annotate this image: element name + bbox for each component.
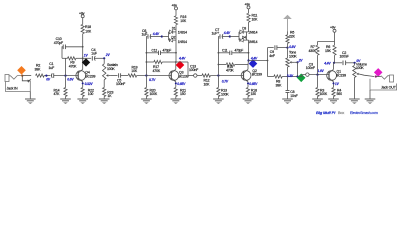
wire tone out to C3: [298, 75, 306, 77]
svg-text:10K: 10K: [131, 69, 138, 73]
wire C3 to Q1 base: [309, 74, 329, 76]
wire diode pair right vertical: [175, 32, 177, 40]
label Jack OUT: [381, 85, 397, 89]
potentiometer Tone 100K: [286, 48, 298, 77]
svg-text:C11: C11: [222, 48, 228, 52]
svg-text:4nF: 4nF: [269, 54, 275, 58]
svg-text:470pF: 470pF: [54, 41, 63, 45]
capacitor C5 100nF: [116, 73, 125, 86]
node tone top 0.8V: [286, 45, 296, 49]
node 4.4V (C7/D3 junction): [223, 31, 231, 37]
node Q1 base 1.6V: [316, 69, 324, 76]
jack switch contact to ground: [22, 76, 31, 83]
wire diodes down to C11 node: [248, 40, 250, 53]
wire R19 to Q3 base node: [137, 75, 172, 77]
svg-text:1uF: 1uF: [212, 32, 218, 36]
svg-text:560: 560: [337, 92, 343, 96]
label Q1: [336, 69, 346, 77]
ground (C8): [282, 99, 293, 104]
node Q3 base 0.7V: [145, 74, 156, 82]
wire Q2 collector to tone stack: [249, 60, 269, 62]
node volume top 0V: [354, 59, 362, 64]
node tone out 3.3V: [287, 74, 299, 78]
label 1V emitter Q1: [333, 82, 340, 86]
resistor R2 39K: [35, 63, 45, 77]
node Q2 collector 4.4V: [247, 56, 258, 61]
potentiometer Sustain 100K: [103, 58, 118, 87]
label 0.65V emitter Q2: [247, 82, 258, 86]
svg-text:4.4V: 4.4V: [323, 61, 331, 65]
svg-text:Big Muff Pi: Big Muff Pi: [316, 110, 336, 115]
jack enclosure / box outline: [6, 81, 31, 92]
wire jack tip to R2: [22, 75, 31, 77]
node Q4 collector: [82, 57, 84, 59]
input jack IN (plug symbol): [5, 75, 22, 82]
ground (output box): [365, 99, 376, 104]
svg-text:0.7V: 0.7V: [149, 78, 156, 82]
svg-text:100K: 100K: [320, 92, 328, 96]
test point TP4 (black diamond): [82, 58, 90, 66]
+9v supply terminal (Q3): [172, 4, 178, 10]
wire Q3 collector to C13: [176, 62, 194, 76]
svg-text:470K: 470K: [153, 69, 161, 73]
wire +9v to R18: [82, 18, 84, 25]
wire +9v to R16: [175, 10, 177, 16]
svg-text:C12: C12: [152, 48, 158, 52]
node sustain top 2V: [103, 53, 110, 59]
svg-text:1V: 1V: [84, 53, 89, 57]
node output: [375, 75, 377, 77]
node Q2 base 0.7V: [217, 74, 229, 83]
ground (R13): [213, 99, 224, 104]
node C10 top: [82, 46, 84, 48]
label 0.32V emitter Q4: [82, 82, 94, 86]
wire R11 down to diodes: [247, 22, 249, 40]
wire Q3 base vertical: [145, 37, 147, 76]
svg-text:Jack IN: Jack IN: [7, 86, 18, 90]
svg-text:0.65V: 0.65V: [177, 82, 186, 86]
label Q2: [252, 69, 262, 77]
capacitor C7 1uF (series, polarized): [212, 28, 230, 39]
svg-text:0.7V: 0.7V: [222, 79, 229, 83]
resistor R6 22K: [286, 31, 296, 48]
resistor R13 100K (Q2 base to gnd): [217, 76, 230, 100]
wire sustain wiper to C5: [111, 75, 118, 77]
ground (R14): [60, 99, 71, 104]
node 0V: [45, 75, 51, 82]
svg-text:1N914: 1N914: [178, 30, 187, 34]
svg-text:1K: 1K: [108, 94, 113, 98]
svg-text:100nF: 100nF: [306, 66, 315, 70]
capacitor C3 100nF: [306, 62, 315, 76]
wire box to ground (out): [369, 90, 371, 99]
wire +9v branch to R7: [318, 42, 335, 46]
wire volume wiper to output node: [359, 74, 375, 77]
svg-text:1N914: 1N914: [248, 30, 257, 34]
wire +9v to R11: [248, 9, 250, 13]
test point tone (green diamond): [297, 74, 306, 83]
transistor Q2 BC239: [241, 69, 251, 81]
svg-text:1uF: 1uF: [91, 52, 97, 56]
svg-text:39K: 39K: [276, 83, 283, 87]
svg-text:ElectroSmash.com: ElectroSmash.com: [350, 111, 378, 115]
svg-text:100nF: 100nF: [189, 68, 198, 72]
capacitor C4 1uF: [83, 48, 105, 61]
resistor R8 39K: [268, 75, 298, 87]
svg-text:+9v: +9v: [330, 25, 336, 29]
capacitor C10 470pF (feedback): [54, 37, 83, 58]
potentiometer Volume 100K: [353, 62, 367, 99]
wire Q1 emitter down: [333, 82, 335, 88]
transistor Q3 BC239: [169, 69, 179, 81]
svg-text:1.6V: 1.6V: [317, 69, 324, 73]
svg-text:2V: 2V: [105, 53, 111, 57]
ground (input jack): [25, 99, 36, 104]
ground (R22): [77, 99, 88, 104]
wire node to diode pair: [162, 36, 169, 38]
wire diode pair right vertical: [246, 32, 248, 40]
svg-text:470pF: 470pF: [235, 48, 244, 52]
wire Q1 collector up: [333, 63, 336, 70]
wire C13 to R12: [197, 75, 202, 77]
svg-text:430K: 430K: [309, 49, 317, 53]
wire Q4 collector up: [82, 58, 84, 69]
diode D2 1N914: [169, 35, 188, 43]
svg-text:BC239: BC239: [336, 73, 346, 77]
resistor R9 470K (feedback): [66, 57, 83, 69]
diode D4 1N914: [239, 35, 258, 43]
svg-text:Box: Box: [338, 111, 344, 115]
resistor R7 430K (base bias): [309, 45, 320, 74]
resistor R22 100 (Q4 emitter): [81, 88, 94, 97]
svg-text:100K: 100K: [150, 92, 158, 96]
diode D3 1N914: [239, 27, 258, 40]
svg-text:0V: 0V: [46, 78, 51, 82]
wire R18 to Q4 collector node: [82, 34, 84, 62]
node 4.4V (C6/D1 junction): [152, 32, 163, 37]
resistor R21 150 (Q3 emitter): [174, 88, 186, 100]
wire +9v down: [334, 32, 336, 45]
ground (volume pot): [349, 99, 360, 104]
label 1V collector Q4: [84, 53, 89, 57]
resistor R4 560 (Q1 emitter): [332, 88, 342, 100]
resistor R15 470K (feedback): [218, 63, 249, 73]
resistor R6b 15K (collector): [325, 45, 336, 63]
ground (R21): [171, 99, 182, 104]
+9v supply terminal (Q2): [245, 3, 251, 9]
wire R12 to Q2 base: [211, 75, 244, 77]
wire node to diode pair D3 D4: [230, 36, 239, 38]
svg-text:D2: D2: [171, 35, 175, 39]
+9v supply terminal (Q1): [330, 25, 336, 32]
svg-text:4.4V: 4.4V: [178, 57, 186, 61]
diode D1 1N914: [169, 27, 188, 40]
node Q3 collector 4.4V: [175, 57, 186, 63]
label Q4: [85, 70, 95, 78]
svg-text:D1: D1: [172, 27, 176, 31]
svg-text:470K: 470K: [226, 69, 234, 73]
label Box: [338, 111, 344, 115]
label ElectroSmash.com: [350, 111, 378, 115]
capacitor C12 470pF (feedback): [146, 48, 177, 55]
svg-text:150: 150: [251, 92, 257, 96]
capacitor C11 470pF (feedback): [218, 48, 250, 55]
wire C10 left to base node: [62, 57, 66, 59]
svg-text:1N914: 1N914: [248, 40, 257, 44]
label Q3: [179, 70, 189, 78]
resistor R17 470K (feedback): [146, 60, 176, 73]
ground (Q2 emitter R): [243, 99, 254, 104]
ground (R23): [99, 99, 110, 104]
svg-text:BC239: BC239: [252, 73, 262, 77]
svg-text:4.4V: 4.4V: [250, 56, 258, 60]
svg-text:10K: 10K: [252, 17, 259, 21]
svg-text:100K: 100K: [107, 67, 115, 71]
output jack plug: [376, 75, 394, 82]
wire tone left vertical: [267, 48, 269, 77]
svg-text:1N914: 1N914: [178, 40, 187, 44]
svg-text:47K: 47K: [54, 92, 61, 96]
svg-text:100K: 100K: [221, 93, 229, 97]
svg-text:D3: D3: [242, 27, 246, 31]
test point OUT (magenta diamond): [374, 68, 383, 77]
resistor R14 47K (Q4 base bias): [54, 76, 68, 99]
wire C1 to Q4 base: [54, 75, 78, 77]
wire Q3 emitter down: [175, 82, 177, 88]
svg-text:4.4V: 4.4V: [152, 32, 160, 36]
svg-text:0.65V: 0.65V: [249, 82, 258, 86]
wire Q2 base vertical: [217, 37, 219, 76]
svg-text:Jack OUT: Jack OUT: [381, 85, 397, 89]
capacitor C1 1uF: [49, 62, 55, 78]
resistor R23 1K (sustain to gnd): [103, 88, 114, 100]
node tone wiper 2V: [294, 58, 303, 63]
wire R2 to C1: [44, 75, 50, 77]
wire tone wiper down to out node: [297, 62, 299, 76]
resistor R11 10K: [247, 13, 258, 22]
wire Q2 collector up: [247, 61, 250, 70]
svg-text:2V: 2V: [298, 58, 304, 62]
svg-text:10K: 10K: [85, 29, 92, 33]
svg-text:100K: 100K: [289, 54, 297, 58]
svg-text:470pF: 470pF: [163, 48, 172, 52]
resistor R20 100K (Q3 base to gnd): [145, 76, 158, 100]
svg-text:22K: 22K: [289, 35, 296, 39]
wire Q3 collector up: [175, 62, 177, 69]
capacitor C6 1uF (series, polarized): [142, 29, 162, 39]
resistor R18 10K: [81, 24, 92, 33]
svg-text:D4: D4: [242, 35, 246, 39]
wire Q4 emitter down: [82, 82, 84, 88]
capacitor C2 100nF: [334, 51, 355, 65]
resistor R3 100K (Q1 base to gnd): [316, 75, 328, 99]
wire R16 down to diodes: [175, 25, 177, 32]
test point TP-IN (orange diamond): [17, 66, 26, 75]
+9v supply terminal (Q4): [79, 12, 85, 18]
transistor Q4 BC239: [76, 69, 86, 81]
svg-text:1uF: 1uF: [49, 66, 55, 70]
capacitor C8 10nF (tone to gnd): [286, 77, 298, 100]
ground (R3): [312, 99, 323, 104]
svg-text:4.4V: 4.4V: [223, 31, 231, 35]
svg-text:10nF: 10nF: [290, 94, 297, 98]
wire base node vertical: [65, 58, 67, 75]
test point TP2 (blue diamond): [249, 59, 258, 68]
wire Q2 emitter down: [247, 82, 249, 88]
svg-text:10K: 10K: [204, 82, 211, 86]
node input tip: [21, 75, 23, 77]
node Q4 base 0.6V: [64, 75, 74, 82]
resistor R18b 150 (Q2 emitter): [246, 88, 257, 100]
svg-text:0.8V: 0.8V: [289, 45, 296, 49]
wire box to ground: [29, 92, 31, 100]
svg-text:10K: 10K: [180, 19, 187, 23]
label Jack IN: [7, 86, 18, 90]
svg-text:BC239: BC239: [85, 74, 95, 78]
ground (R20): [141, 99, 152, 104]
resistor R19 10K: [128, 65, 138, 77]
wire C11 node to collector node: [248, 53, 250, 61]
resistor R16 10K: [174, 15, 186, 25]
capacitor C9 4nF: [268, 45, 288, 58]
svg-text:0.32V: 0.32V: [85, 82, 94, 86]
test point TP3 (red diamond): [176, 61, 185, 70]
wire C12 node to R17 node: [175, 53, 177, 62]
output jack box outline: [370, 79, 397, 90]
svg-text:0.6V: 0.6V: [67, 77, 74, 81]
label 0.65V emitter Q3: [175, 82, 186, 86]
wire C5 to R19: [121, 75, 128, 77]
svg-text:BC239: BC239: [179, 74, 189, 78]
svg-text:39K: 39K: [35, 67, 42, 71]
wire diodes down to C12 node: [175, 40, 177, 53]
svg-text:100K: 100K: [356, 66, 364, 70]
capacitor C13 100nF: [189, 64, 198, 77]
svg-text:100nF: 100nF: [340, 54, 349, 58]
wire R22 to ground: [82, 97, 84, 100]
svg-text:1V: 1V: [335, 82, 340, 86]
svg-text:470K: 470K: [69, 64, 77, 68]
svg-text:100nF: 100nF: [116, 82, 125, 86]
svg-text:100: 100: [88, 92, 94, 96]
ground (R4): [328, 99, 339, 104]
node Q1 collector 4.4V: [323, 61, 335, 65]
svg-text:15K: 15K: [325, 49, 332, 53]
supply arrow (R6 to +9v): [283, 15, 292, 31]
title Big Muff Pi: [316, 110, 336, 115]
transistor Q1 BC239: [327, 69, 337, 81]
svg-text:150: 150: [180, 92, 186, 96]
resistor R12 10K: [202, 74, 211, 86]
